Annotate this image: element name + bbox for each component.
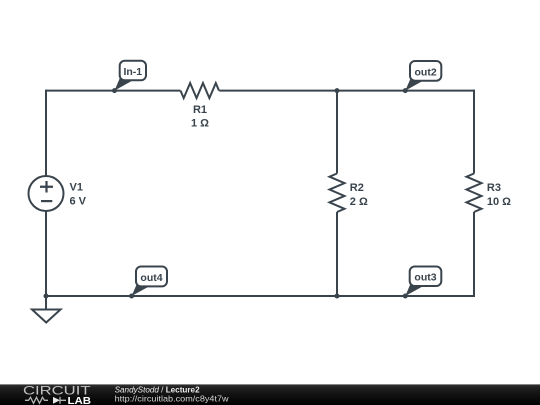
wire middle vertical top bbox=[336, 91, 338, 174]
svg-text:http://circuitlab.com/c8y4t7w: http://circuitlab.com/c8y4t7w bbox=[115, 394, 230, 404]
junction bottom left bbox=[44, 294, 49, 299]
svg-text:out4: out4 bbox=[140, 272, 162, 284]
node out3 bbox=[403, 267, 442, 299]
svg-text:10 Ω: 10 Ω bbox=[487, 196, 511, 208]
junction top middle bbox=[335, 88, 340, 93]
wire bottom segment bbox=[46, 295, 475, 297]
svg-text:out3: out3 bbox=[414, 272, 436, 284]
voltage source V1 bbox=[29, 176, 87, 211]
svg-text:R3: R3 bbox=[487, 182, 501, 194]
wire right vertical bottom bbox=[473, 212, 475, 297]
svg-text:LAB: LAB bbox=[68, 395, 92, 405]
wire top-left segment bbox=[46, 90, 181, 92]
svg-text:6 V: 6 V bbox=[70, 196, 87, 208]
svg-text:out2: out2 bbox=[415, 66, 437, 78]
junction bottom middle bbox=[335, 294, 340, 299]
wire middle vertical bottom bbox=[336, 212, 338, 296]
wire top-right segment bbox=[219, 90, 475, 92]
node out4 bbox=[129, 267, 167, 299]
svg-text:In-1: In-1 bbox=[123, 66, 142, 78]
ground bbox=[32, 296, 61, 323]
logo diode bbox=[53, 397, 66, 404]
logo resistor squiggle bbox=[25, 397, 48, 403]
node In-1 bbox=[112, 61, 146, 93]
svg-text:2 Ω: 2 Ω bbox=[350, 196, 368, 208]
footer bar bbox=[0, 384, 540, 405]
resistor R3 bbox=[467, 174, 512, 212]
node out2 bbox=[403, 61, 442, 93]
resistor R1 bbox=[181, 83, 219, 129]
svg-text:V1: V1 bbox=[70, 182, 83, 194]
svg-text:R1: R1 bbox=[193, 104, 207, 116]
svg-text:R2: R2 bbox=[350, 182, 364, 194]
resistor R2 bbox=[330, 174, 368, 212]
wire left vertical top bbox=[45, 90, 47, 176]
wire right vertical top bbox=[473, 90, 475, 174]
svg-text:1 Ω: 1 Ω bbox=[191, 118, 209, 130]
wire left vertical bottom bbox=[45, 211, 47, 296]
